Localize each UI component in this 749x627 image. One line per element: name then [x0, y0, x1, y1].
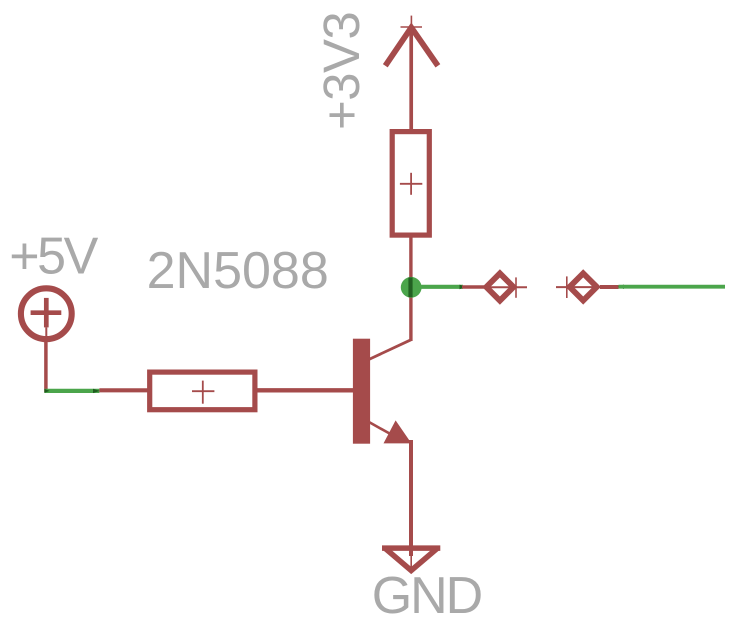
wire: pin of JP2	[600, 285, 619, 289]
net end marker left	[45, 389, 50, 393]
wire: pin of JP1	[462, 285, 484, 289]
wire: pin to R2	[99, 388, 148, 392]
ground symbol GND	[382, 548, 440, 573]
net: junction to JP1	[420, 285, 463, 289]
wire: R1 bottom to collector	[409, 235, 412, 341]
supply symbol +3V3 arrow	[385, 28, 438, 66]
svg-text:+3V3: +3V3	[313, 12, 370, 130]
resistor R1 (vertical)	[392, 132, 429, 236]
net end marker at R2 pin	[93, 389, 100, 393]
wire: +5V pin down	[44, 340, 48, 392]
pin cross at +3V3 apex	[401, 16, 423, 35]
pin cross JP2	[566, 276, 568, 298]
svg-text:GND: GND	[372, 567, 482, 625]
net end marker at JP2	[618, 285, 625, 290]
label +3V3	[313, 12, 370, 130]
pin cross JP1	[515, 277, 517, 297]
net: JP2 to right	[619, 285, 726, 289]
wire: arrow stem down to R1	[409, 27, 413, 133]
transistor Q1 2N5088 (NPN)	[353, 339, 412, 444]
junction dot	[401, 277, 422, 298]
resistor R2 (horizontal)	[150, 372, 255, 410]
wire: R2 to Q1 base	[257, 388, 354, 392]
net: green wire at +5V corner	[44, 389, 99, 393]
pinhead JP2	[556, 273, 601, 300]
pinhead JP1	[483, 273, 527, 300]
svg-text:+5V: +5V	[9, 228, 98, 286]
net end marker at JP1	[460, 285, 467, 290]
svg-text:2N5088: 2N5088	[147, 242, 329, 300]
wire: emitter down to GND	[409, 440, 413, 556]
supply symbol +5V circle	[21, 288, 72, 344]
